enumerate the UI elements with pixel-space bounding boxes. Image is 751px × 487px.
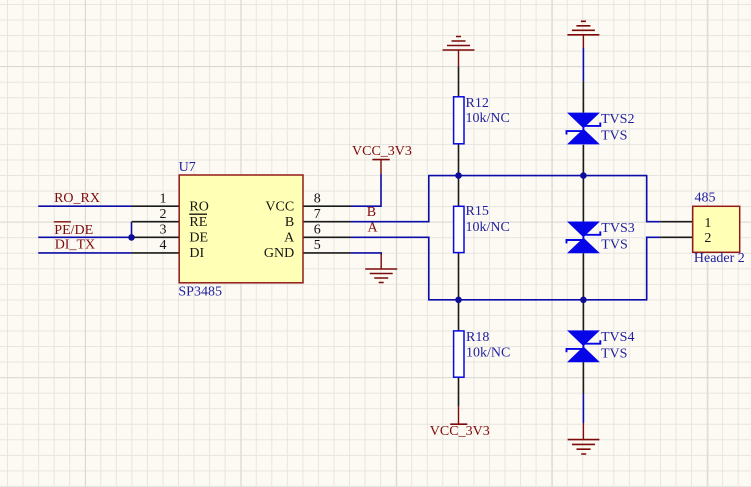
svg-text:4: 4	[160, 238, 167, 253]
svg-text:1: 1	[704, 216, 711, 231]
svg-text:DE: DE	[189, 230, 208, 245]
svg-text:A: A	[368, 220, 379, 235]
svg-text:RO_RX: RO_RX	[54, 191, 100, 206]
svg-text:5: 5	[314, 238, 321, 253]
svg-text:TVS: TVS	[601, 238, 627, 253]
svg-text:TVS3: TVS3	[601, 221, 634, 236]
svg-text:6: 6	[314, 222, 321, 237]
svg-text:RO: RO	[189, 199, 208, 214]
svg-text:VCC: VCC	[265, 199, 294, 214]
svg-text:1: 1	[160, 191, 167, 206]
svg-text:8: 8	[314, 191, 321, 206]
svg-text:RE: RE	[189, 215, 207, 230]
svg-text:485: 485	[695, 190, 716, 205]
svg-text:TVS2: TVS2	[601, 112, 634, 127]
svg-text:U7: U7	[179, 160, 196, 175]
svg-text:10k/NC: 10k/NC	[466, 220, 510, 235]
svg-text:B: B	[285, 215, 294, 230]
svg-text:10k/NC: 10k/NC	[466, 346, 510, 361]
svg-text:A: A	[284, 230, 295, 245]
svg-text:PE/DE: PE/DE	[54, 223, 93, 238]
svg-text:7: 7	[314, 207, 321, 222]
svg-text:3: 3	[160, 222, 167, 237]
svg-text:10k/NC: 10k/NC	[466, 111, 510, 126]
svg-text:SP3485: SP3485	[178, 285, 222, 300]
svg-text:VCC_3V3: VCC_3V3	[352, 144, 412, 159]
svg-text:TVS: TVS	[601, 346, 627, 361]
svg-text:R12: R12	[466, 96, 489, 111]
svg-text:TVS: TVS	[601, 129, 627, 144]
svg-text:R15: R15	[466, 204, 489, 219]
svg-text:DI_TX: DI_TX	[55, 237, 95, 252]
svg-text:GND: GND	[264, 246, 294, 261]
svg-text:Header 2: Header 2	[694, 251, 745, 266]
svg-text:DI: DI	[189, 246, 204, 261]
svg-text:2: 2	[704, 231, 711, 246]
svg-text:VCC_3V3: VCC_3V3	[430, 424, 490, 439]
svg-text:R18: R18	[466, 330, 489, 345]
svg-text:TVS4: TVS4	[601, 330, 634, 345]
svg-text:2: 2	[160, 207, 167, 222]
svg-text:B: B	[367, 205, 376, 220]
